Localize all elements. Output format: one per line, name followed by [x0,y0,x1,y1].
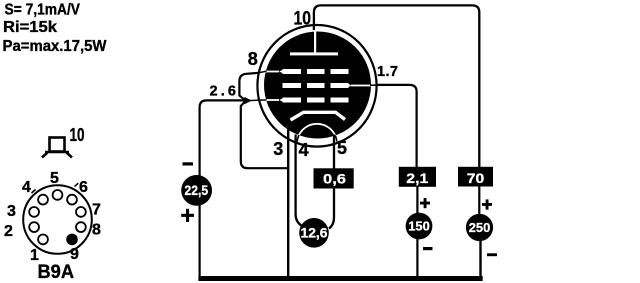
wire: cathode down to ground bus [287,130,289,278]
screen supply plus [420,202,430,205]
socket pin 5 [53,190,63,200]
screen current box 2,1 [399,167,436,187]
svg-text:22,5: 22,5 [185,183,209,198]
svg-text:5: 5 [50,170,59,187]
wire: 150 to ground bus [416,238,418,278]
g3 lead arrow (white) [279,69,285,75]
svg-text:70: 70 [467,170,485,186]
socket pin 6 [67,195,77,205]
g1 arrow at crossing [245,97,252,104]
anode plate bar [290,52,338,55]
tube inner black disc [264,32,371,139]
socket leader tick 6 [75,183,79,186]
socket pin 1 [38,235,48,245]
wire: 2,1 to 150 [416,187,418,216]
g1 lead arrow (white) [279,97,285,103]
tube envelope [257,25,376,147]
svg-text:0,6: 0,6 [323,171,346,187]
anode current box 70 [458,167,493,187]
wire: 250 to ground bus [479,240,481,280]
svg-text:2.6: 2.6 [210,83,237,99]
anode supply minus [487,253,497,256]
socket pin 7 [76,207,86,217]
g2 envelope crossing (thin) [370,84,378,86]
socket pin 3 [29,207,39,217]
wire: g2 lead to screen supply [376,85,417,168]
g3 envelope crossing (thin) [258,71,267,73]
svg-text:B9A: B9A [38,261,75,283]
svg-text:Ri=15k: Ri=15k [3,19,57,36]
B9A socket outline [23,185,92,254]
svg-text:Pa=max.17,5W: Pa=max.17,5W [3,38,108,55]
svg-text:5: 5 [337,138,347,158]
svg-text:6: 6 [79,179,88,196]
socket pin 4 [38,195,48,205]
heater circle [297,124,337,164]
anode supply plus [482,203,492,206]
svg-text:150: 150 [408,219,430,234]
wire: 70 to 250 [478,186,480,215]
screen supply 150 [406,213,433,240]
screen supply minus [423,247,433,250]
grid bias battery minus [183,162,194,165]
svg-text:2: 2 [4,223,13,240]
svg-text:2,1: 2,1 [406,170,428,186]
grid g2 (row 2) dashes [283,83,372,89]
svg-text:S= 7,1mA/V: S= 7,1mA/V [5,2,81,19]
wire: heater pin 4 down to 12,6 [296,135,302,227]
svg-text:4: 4 [22,179,31,196]
svg-text:4: 4 [299,140,309,160]
grid bias battery 22,5 [181,175,212,206]
socket pin 8 [76,222,86,232]
heater voltage circle 12,6 [299,218,329,248]
svg-text:7: 7 [92,202,101,219]
heater circle (outline in gap) [297,124,337,164]
svg-text:12,6: 12,6 [301,226,328,241]
svg-text:10: 10 [70,125,85,145]
svg-text:8: 8 [248,49,258,69]
wire: g3 lead, down and to cathode line [239,73,289,168]
top-cap symbol (pin 10) [42,138,72,158]
grid g3 (row 1) dashes [264,69,349,75]
heater current box 0,6 [314,168,354,188]
socket pin 2 [29,222,39,232]
anode supply 250 [466,214,493,241]
wire: g1 lead from bias battery [200,100,250,176]
wire: heater pin 5 down through 0,6 to 12,6 [329,135,334,229]
svg-text:3: 3 [273,139,283,159]
socket leader tick 4 [32,190,36,194]
svg-text:1.7: 1.7 [377,64,398,80]
grid g1 (row 3) dashes [264,97,349,103]
svg-text:8: 8 [92,222,101,239]
socket pin 9 (marked) [66,234,78,246]
wire: anode top from pin 10 to 70-box column [314,5,479,167]
wire: bias battery to ground bus [199,204,201,280]
ground bus [198,276,482,281]
cathode [291,112,346,120]
g1 envelope crossing (thin) [250,99,267,102]
grid bias battery plus [181,214,194,217]
g2 lead arrow (white) [346,83,352,89]
svg-text:250: 250 [469,220,491,235]
svg-text:3: 3 [7,203,16,220]
anode connection (white, inside disc) [314,32,316,54]
